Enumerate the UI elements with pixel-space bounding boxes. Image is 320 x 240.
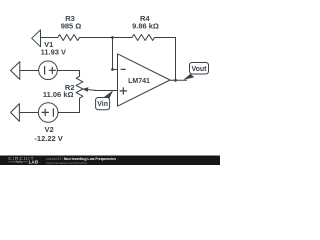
svg-text:11.06 kΩ: 11.06 kΩ	[43, 90, 74, 99]
svg-text:-12.22 V: -12.22 V	[34, 134, 62, 143]
voltage source V2 circle	[38, 103, 58, 123]
junction node (output)	[174, 79, 177, 82]
net flag Vin box	[96, 98, 110, 110]
svg-text:Vout: Vout	[191, 66, 207, 73]
V1 minus bar	[44, 67, 46, 75]
junction node (inverting input)	[111, 68, 114, 71]
op-amp plus input sign	[120, 88, 126, 94]
wire	[20, 70, 39, 72]
wire	[41, 37, 58, 39]
svg-text:Vin: Vin	[97, 101, 108, 108]
net flag Vin pointer	[103, 90, 113, 101]
op-amp U1 triangle	[118, 54, 171, 106]
footer bar	[0, 156, 220, 166]
voltage source V1 circle	[39, 61, 58, 80]
op-amp minus input sign	[121, 68, 125, 70]
svg-text:9.86 kΩ: 9.86 kΩ	[132, 21, 159, 30]
wire	[80, 37, 133, 39]
svg-text:V2: V2	[45, 125, 54, 134]
wire	[19, 112, 38, 114]
net flag arrow (middle left, source V1)	[11, 62, 20, 80]
resistor R3	[58, 35, 80, 41]
wire	[155, 38, 176, 81]
CircuitLab logo wire line	[9, 161, 28, 163]
V2 plus sign	[42, 109, 48, 115]
op-amp output wire	[170, 79, 187, 81]
wiper arrowhead	[82, 87, 88, 92]
svg-text:11.93 V: 11.93 V	[41, 48, 66, 57]
svg-text:985 Ω: 985 Ω	[61, 21, 82, 30]
wire (+ input)	[95, 90, 118, 92]
resistor R2 (vertical)	[76, 76, 83, 98]
svg-text:LAB: LAB	[29, 160, 39, 165]
V2 minus bar	[52, 109, 54, 116]
net flag arrow (top left, R3 input)	[32, 30, 41, 47]
CircuitLab logo zigzag	[16, 161, 23, 163]
net flag Vout box	[190, 63, 209, 75]
svg-text:LM741: LM741	[128, 78, 150, 85]
resistor R4	[132, 35, 155, 41]
junction node (feedback top)	[111, 36, 114, 39]
wire	[58, 98, 80, 112]
svg-text:http://circuitlab.com/c/5vwd7q: http://circuitlab.com/c/5vwd7q	[47, 161, 88, 165]
net flag arrow (bottom left, source V2)	[11, 104, 20, 122]
wiper arrow line	[84, 89, 96, 90]
V1 plus sign	[49, 67, 55, 73]
net flag Vout pointer	[183, 74, 194, 80]
wire	[113, 69, 118, 71]
wire (feedback to inverting input)	[112, 38, 114, 70]
wire	[57, 71, 79, 77]
